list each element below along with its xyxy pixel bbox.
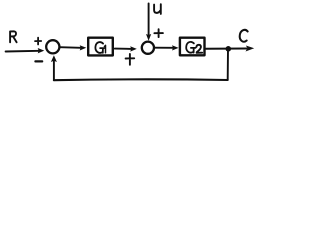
arrowhead into block G2 — [172, 45, 179, 50]
arrowhead into summer S1 — [38, 48, 45, 53]
label G2 — [186, 42, 202, 53]
summing junction S2 — [142, 42, 154, 54]
block G1 — [88, 38, 113, 56]
summing junction S1 — [46, 40, 59, 53]
wire u input — [148, 3, 150, 34]
arrowhead feedback into S1 — [51, 55, 57, 62]
arrowhead into block G1 — [80, 45, 87, 50]
plus sign S1 R input — [35, 38, 41, 45]
wire feedback riser to S1 — [53, 60, 55, 81]
label C — [240, 30, 248, 42]
junction dot — [226, 46, 232, 52]
wire G1 to summer S2 — [115, 48, 132, 50]
plus sign S2 left input — [126, 54, 135, 65]
wire feedback down from junction — [227, 49, 229, 80]
node R — [10, 31, 17, 42]
arrowhead into summer S2 — [130, 46, 137, 51]
wire R input — [6, 50, 40, 53]
label u — [154, 4, 161, 14]
minus sign S1 feedback input — [35, 60, 42, 62]
arrowhead u into summer S2 — [146, 34, 151, 41]
wire G2 output — [206, 48, 247, 50]
wire S2 to G2 — [155, 47, 174, 49]
block G2 — [180, 38, 205, 56]
wire feedback bottom run — [54, 78, 228, 81]
plus sign S2 u input — [154, 29, 163, 37]
wire S1 to G1 — [60, 46, 81, 49]
arrowhead output C — [246, 46, 255, 52]
label G1 — [95, 42, 105, 53]
